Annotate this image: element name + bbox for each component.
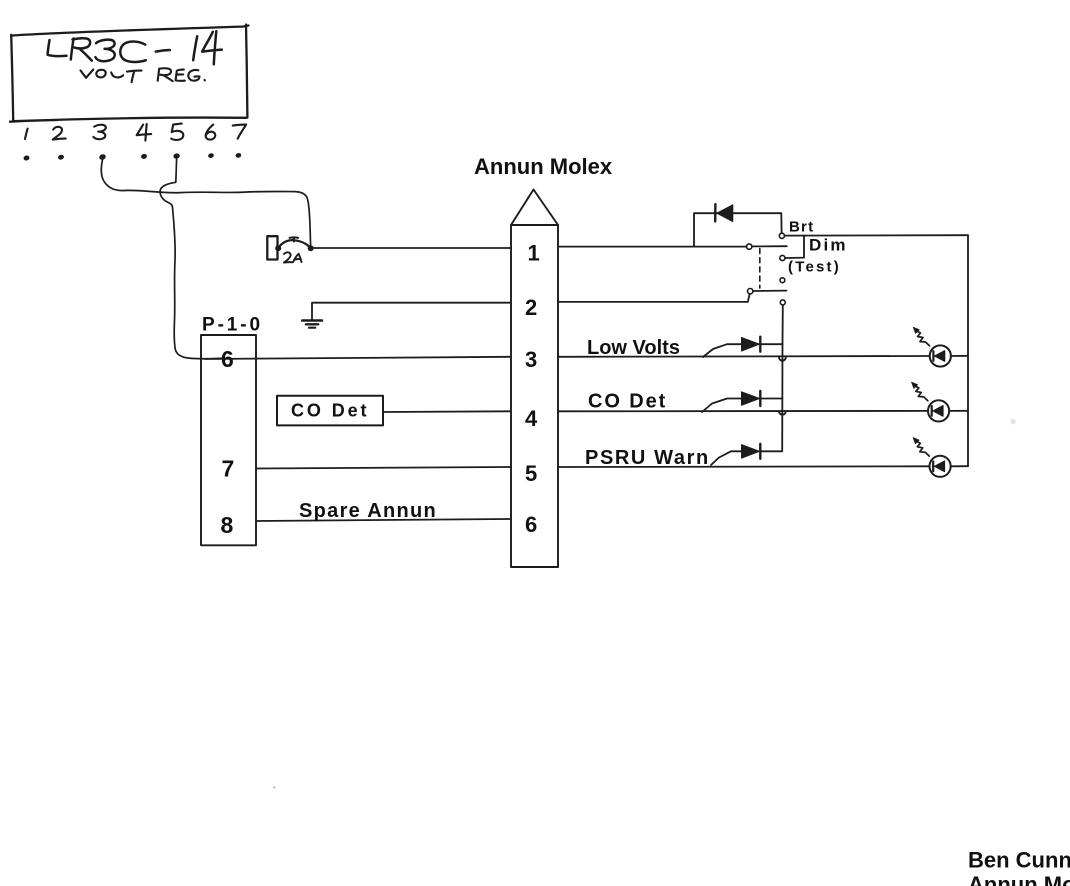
switch S1 pole 1 arm — [753, 245, 787, 247]
fuse F1 arc element — [279, 240, 311, 247]
svg-text:3: 3 — [525, 347, 537, 372]
svg-text:7: 7 — [222, 456, 235, 482]
svg-text:8: 8 — [221, 512, 234, 538]
regulator pin labels 1-7 (handwritten) — [25, 124, 246, 141]
diode D4 (PSRU Warn) — [742, 444, 761, 459]
regulator pin dots — [23, 152, 242, 161]
pin dot 5 — [173, 153, 181, 160]
wire Dim contact step up to Brt line — [785, 236, 804, 258]
wire PSRU LED to right bus — [951, 465, 968, 467]
wire Brt contact to right bus — [784, 234, 968, 236]
switch S1 Dim contact circle — [780, 255, 785, 260]
LED3 (PSRU Warn) — [913, 438, 951, 477]
svg-text:Annun Molex: Annun Molex — [474, 154, 613, 179]
diode D3 (CO Det) — [742, 391, 761, 406]
wire test contact down to diode bus — [782, 305, 784, 344]
ground symbol — [302, 321, 322, 328]
pin label 2 — [53, 127, 66, 140]
wire Molex pin 1 to switch pole 1 — [558, 246, 746, 248]
LED2 (CO Det) — [912, 382, 950, 421]
svg-text:1: 1 — [528, 241, 540, 266]
wire Molex pin 2 to switch pole 2 — [558, 294, 750, 302]
switch S1 Test contact circle — [780, 278, 785, 283]
wire Low Volts LED to right bus — [951, 355, 968, 357]
fuse F1 T-handle — [290, 237, 298, 241]
pin dot 6 — [208, 153, 215, 159]
pin dot 2 — [57, 154, 64, 160]
switch S1 Brt contact circle — [779, 233, 784, 238]
wire Molex pin 5 row PSRU Warn — [558, 465, 930, 468]
wire Low Volts diode branch — [703, 344, 783, 357]
wire Molex pin 2 to ground — [312, 303, 511, 321]
svg-text:6: 6 — [525, 512, 537, 537]
wire fuse to Molex pin 1 — [312, 247, 511, 249]
connector Annun Molex box — [511, 225, 558, 567]
wire P-1-0 pin 7 to Molex pin 5 — [256, 467, 511, 469]
wire diode bus vertical — [781, 344, 783, 451]
svg-text:Brt: Brt — [789, 219, 814, 236]
junction hook on diode bus at Low Volts row — [779, 357, 786, 360]
switch S1 pole 1 open circle — [747, 244, 752, 249]
diode D2 (Low Volts) — [742, 337, 761, 352]
WIRES-STRAIGHT — [205, 213, 968, 521]
svg-text:P-1-0: P-1-0 — [202, 315, 263, 336]
fuse F1 right terminal — [308, 245, 314, 251]
label 2A (handwritten) — [284, 252, 302, 262]
pin label 5 — [171, 124, 183, 140]
DIODE-BRANCHES — [702, 344, 783, 465]
svg-text:PSRU Warn: PSRU Warn — [585, 447, 710, 469]
wire P-1-0 pin 8 to Molex pin 6 — [256, 519, 511, 521]
wire PSRU Warn diode branch — [711, 451, 782, 465]
wire CO Det box to Molex pin 4 — [383, 410, 511, 413]
pin dot 1 — [23, 155, 30, 161]
pin dot 7 — [235, 152, 242, 158]
pin label 6 — [206, 125, 216, 140]
wire regulator pin 5 to P-1-0 pin 6 (hand-drawn, hops over) — [160, 159, 222, 359]
LED1 (Low Volts) — [913, 327, 951, 366]
svg-text:Low Volts: Low Volts — [587, 337, 680, 359]
svg-text:Dim: Dim — [809, 236, 848, 255]
wire Molex pin 4 row CO Det — [558, 410, 928, 412]
fuse F1 left terminal — [275, 245, 281, 251]
switch S1 pole 2 open circle — [748, 289, 753, 294]
connector Annun Molex keying triangle — [511, 190, 558, 226]
pin dot 3 — [99, 154, 107, 161]
pin label 3 — [93, 125, 105, 139]
voltage regulator LR3C-14 hand-drawn box — [10, 25, 249, 122]
wire Molex pin 3 row Low Volts — [558, 355, 930, 358]
switch S1 pole 2 contact circle — [780, 300, 785, 305]
pin label 7 — [233, 125, 247, 139]
stray speck — [273, 786, 275, 788]
svg-text:4: 4 — [525, 406, 538, 431]
switch S1 pole 2 arm — [754, 290, 787, 292]
pin dot 4 — [140, 153, 147, 159]
svg-text:Annun Molex: Annun Molex — [968, 872, 1070, 886]
diode D1 (dimming diode) — [715, 204, 733, 221]
svg-text:5: 5 — [525, 461, 537, 486]
pin label 1 — [25, 129, 28, 139]
svg-text:(Test): (Test) — [788, 259, 841, 276]
junction hook on diode bus at CO Det row — [779, 411, 786, 414]
faint smudge — [1010, 419, 1016, 425]
CO Det source box — [277, 396, 383, 426]
svg-text:6: 6 — [221, 346, 234, 372]
svg-text:Ben Cunningham: Ben Cunningham — [968, 848, 1070, 873]
label LR3C - 14 (handwritten) — [48, 31, 222, 64]
wire regulator pin 3 to fuse (hand-drawn) — [101, 160, 310, 246]
wire P-1-0 pin 6 to Molex pin 3 — [205, 357, 511, 359]
fuse F1 holder bracket — [267, 236, 277, 259]
svg-text:Spare Annun: Spare Annun — [299, 500, 437, 522]
wire dimming diode branch: up from pin1 wire, across, down to Brt — [694, 213, 782, 246]
wire CO Det diode branch — [702, 399, 782, 413]
connector P-1-0 box — [201, 335, 256, 545]
wire right bus vertical — [967, 235, 969, 466]
label VOLT REG. (handwritten) — [81, 68, 205, 82]
svg-text:2: 2 — [525, 295, 537, 320]
wire CO Det LED to right bus — [949, 410, 968, 412]
switch S1 gang link dashed — [759, 249, 761, 289]
pin label 4 — [137, 124, 152, 141]
svg-text:CO Det: CO Det — [588, 391, 667, 413]
svg-text:CO Det: CO Det — [291, 401, 369, 421]
